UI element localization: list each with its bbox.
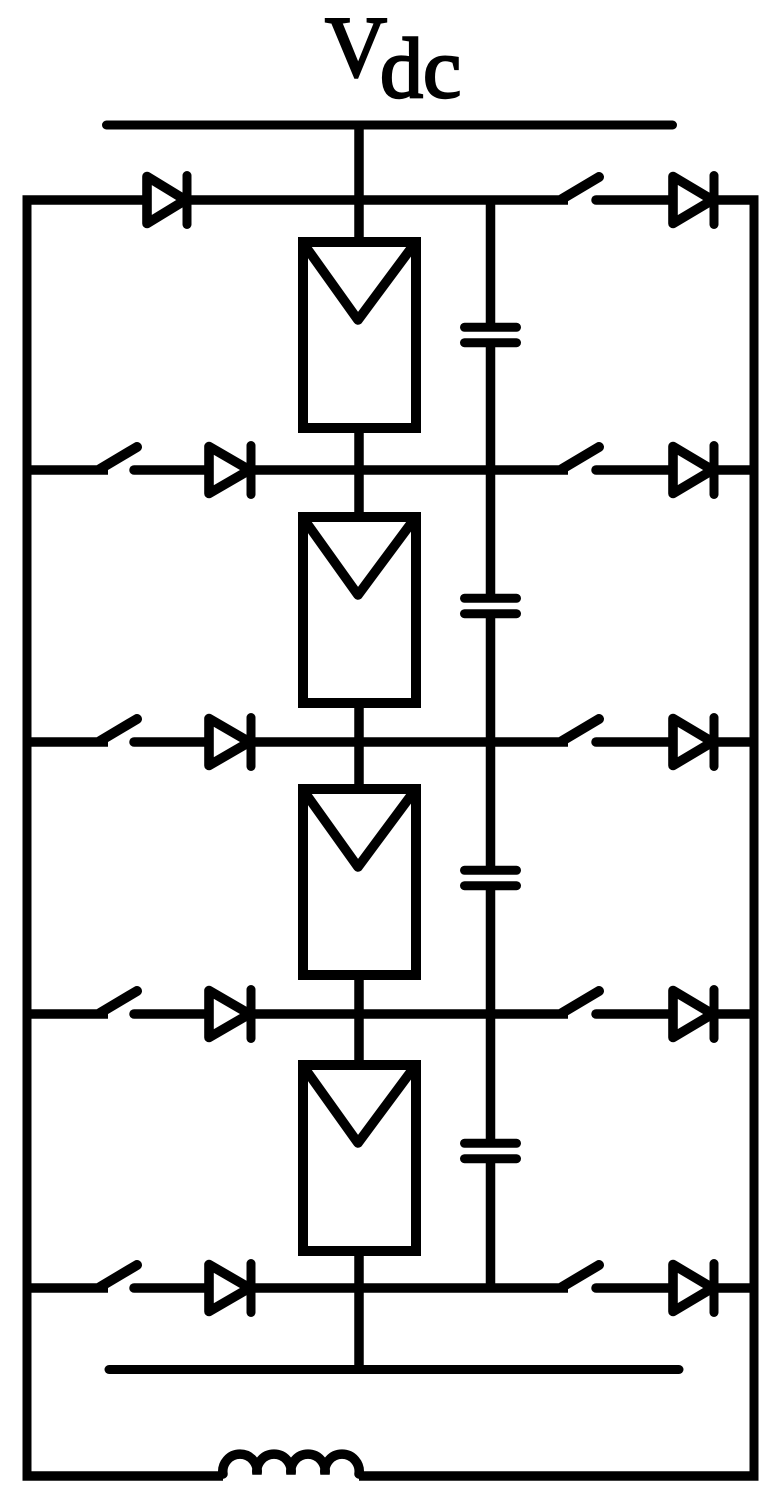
switch S4: [562, 447, 599, 469]
row 4 wire: D8 to right rail: [714, 1009, 759, 1019]
row 1 wire: D1 to switch S1: [187, 195, 568, 205]
row 3 wire: S5 to diode D5: [134, 737, 214, 747]
row 5 wire: S9 to diode D9: [134, 1283, 214, 1293]
row 3 wire: S6 to diode D6: [596, 737, 678, 747]
row 3 wire: D6 to right rail: [714, 737, 759, 747]
label Vdc: [325, 0, 461, 116]
row 4 wire: left rail to switch S7: [23, 1009, 109, 1019]
wire: PV3 to PV4 (node C): [354, 971, 364, 1069]
row 2 wire: D3 to switch S4: [251, 465, 568, 475]
switch S10: [562, 1265, 599, 1287]
row 4 wire: S8 to diode D8: [596, 1009, 678, 1019]
row 1 wire: left rail to diode D1: [23, 195, 153, 205]
capacitor C1: [465, 327, 517, 342]
diode D3: [209, 446, 251, 495]
switch S8: [562, 991, 599, 1013]
diode D8: [673, 990, 714, 1039]
wire: right rail: [750, 200, 759, 1476]
diode D9: [209, 1264, 251, 1313]
PV module PV2: [303, 517, 416, 703]
PV module PV1: [303, 242, 416, 428]
switch S3: [100, 447, 137, 469]
row 2 wire: left rail to switch S3: [23, 465, 109, 475]
wire: top bus to PV1: [354, 121, 364, 247]
row 3 wire: left rail to switch S5: [23, 737, 109, 747]
switch S5: [100, 719, 137, 741]
diode D1: [147, 176, 187, 225]
row 4 wire: S7 to diode D7: [134, 1009, 214, 1019]
switch S7: [100, 991, 137, 1013]
row 4 wire: D7 to switch S8: [251, 1009, 568, 1019]
switch S1: [562, 177, 599, 199]
diode D6: [673, 718, 714, 767]
row 5 wire: D9 to switch S10: [251, 1283, 568, 1293]
wire: PV1 to PV2 (node A): [354, 424, 364, 521]
bottom bus: [109, 1365, 679, 1374]
switch S6: [562, 719, 599, 741]
switch S9: [100, 1265, 137, 1287]
wire: PV2 to PV3 (node B): [354, 699, 364, 793]
diode D4: [673, 446, 714, 495]
row 1 wire: D2 to right rail: [714, 195, 759, 205]
row 1 wire: S1 to diode D2: [596, 195, 678, 205]
row 2 wire: S4 to diode D4: [596, 465, 678, 475]
wire: PV4 to bottom bus (node D): [354, 1247, 364, 1370]
capacitor C4: [465, 1143, 517, 1158]
wire: C3 to C4: [486, 886, 496, 1144]
diode D2: [673, 176, 714, 225]
wire: C1 to C2: [486, 343, 496, 599]
inductor L1: [223, 1454, 359, 1474]
row 3 wire: D5 to switch S6: [251, 737, 568, 747]
capacitor C2: [465, 598, 517, 613]
diode D5: [209, 718, 251, 767]
wire: row1 to C1: [486, 196, 496, 328]
row 2 wire: D4 to right rail: [714, 465, 759, 475]
row 2 wire: S3 to diode D3: [134, 465, 214, 475]
PV module PV3: [303, 789, 416, 975]
svg-text:dc: dc: [380, 20, 461, 116]
top bus (Vdc rail): [107, 121, 673, 130]
svg-text:V: V: [325, 0, 387, 95]
row 5 wire: S10 to diode D10: [596, 1283, 678, 1293]
wire: C4 to row5: [486, 1159, 496, 1288]
PV module PV4: [303, 1065, 416, 1251]
diode D10: [673, 1264, 714, 1313]
row 5 wire: left rail to switch S9: [23, 1283, 109, 1293]
wire: bottom return (left of inductor): [23, 1471, 224, 1481]
row 5 wire: D10 to right rail: [714, 1283, 759, 1293]
capacitor C3: [465, 870, 517, 885]
wire: bottom return (right of inductor): [359, 1471, 759, 1481]
wire: left rail: [23, 200, 32, 1476]
diode D7: [209, 990, 251, 1039]
wire: C2 to C3: [486, 614, 496, 871]
